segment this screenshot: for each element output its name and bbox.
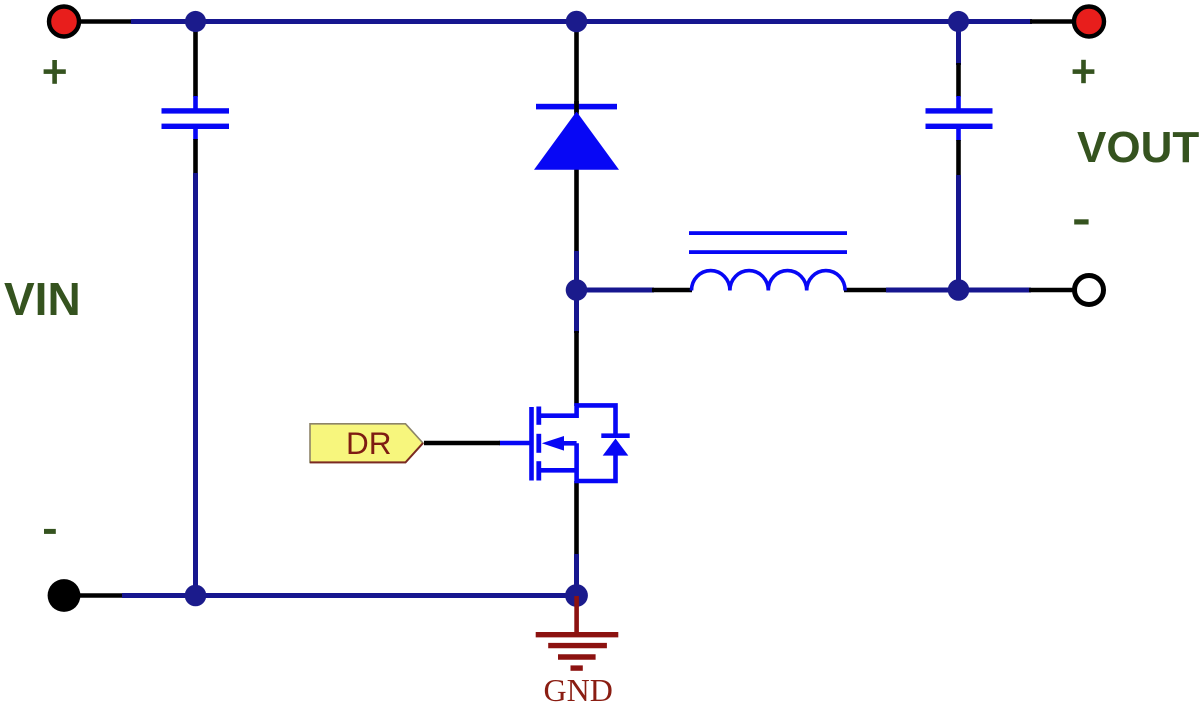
label minus VIN xyxy=(44,529,56,534)
wire left branch C1 top lead xyxy=(193,22,198,111)
inductor L1 winding xyxy=(692,271,846,291)
node top right xyxy=(948,11,969,32)
wire mid rail left of inductor xyxy=(577,288,693,293)
wire top rail black stub left xyxy=(78,19,133,24)
svg-text:VIN: VIN xyxy=(4,273,81,325)
wire center branch mosfet source lead xyxy=(574,481,579,596)
label VOUT xyxy=(1077,123,1199,172)
node mid center xyxy=(566,279,588,301)
wire mid rail right of inductor xyxy=(844,288,1076,293)
label VIN xyxy=(4,273,81,325)
label plus VIN xyxy=(44,60,66,84)
wire center branch diode top lead xyxy=(574,22,579,121)
transistor Q1 source connection xyxy=(541,443,616,481)
terminal VIN- xyxy=(48,579,81,612)
transistor Q1 drain connection xyxy=(541,405,616,434)
wire right branch C2 top lead xyxy=(956,22,961,111)
node bottom left xyxy=(185,585,207,607)
wire left branch C1 bottom lead xyxy=(193,127,198,596)
terminal VOUT+ xyxy=(1074,7,1104,37)
transistor Q1 gate bar xyxy=(529,407,534,481)
transistor Q1 body arrow xyxy=(542,436,577,451)
capacitor C2 xyxy=(926,108,993,129)
svg-text:DR: DR xyxy=(346,425,392,461)
terminal VOUT- xyxy=(1075,276,1104,305)
node bottom center xyxy=(565,584,588,607)
capacitor C1 xyxy=(162,108,230,129)
svg-text:GND: GND xyxy=(544,672,613,708)
ground xyxy=(536,596,619,668)
label plus VOUT xyxy=(1073,60,1095,83)
wire center branch diode bottom lead xyxy=(574,120,579,290)
node mid right xyxy=(948,279,970,301)
wire right branch C2 bottom lead xyxy=(956,127,961,290)
transistor Q1 channel bars xyxy=(536,407,541,481)
wire top rail navy xyxy=(131,19,1032,24)
label GND xyxy=(544,672,613,708)
svg-text:VOUT: VOUT xyxy=(1077,123,1199,172)
diode D1 xyxy=(534,101,619,170)
label minus VOUT xyxy=(1074,219,1088,224)
inductor L1 core lines xyxy=(689,231,847,254)
wire top rail black stub right xyxy=(1030,19,1076,24)
wire DR to gate xyxy=(424,441,500,446)
node top center xyxy=(566,11,588,33)
wire center branch mosfet drain lead xyxy=(574,290,579,406)
transistor Q1 body diode xyxy=(601,433,629,455)
terminal VIN+ xyxy=(49,7,79,37)
transistor Q1 gate lead xyxy=(499,441,531,446)
flag DR xyxy=(310,424,423,463)
wire bottom rail xyxy=(80,593,577,598)
node top left xyxy=(185,11,206,32)
